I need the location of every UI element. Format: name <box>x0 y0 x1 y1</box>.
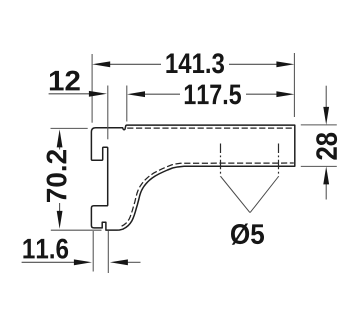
dimension 141.3 label <box>166 53 224 73</box>
dimension 28 label <box>316 133 337 160</box>
dimension 28 tick bottom <box>301 165 337 167</box>
dimension 11.6 label <box>23 239 68 259</box>
dimension 28 line <box>325 86 327 200</box>
bracket outline <box>91 125 294 230</box>
extension line right (x=294.4) <box>293 53 295 117</box>
extension line step (x=126.8) <box>126 86 128 122</box>
dimension 70.2 line <box>59 147 61 212</box>
hole center line 1 <box>220 144 222 177</box>
hole center line 2 <box>278 144 280 177</box>
dimension 11.6 right arrow <box>110 259 128 265</box>
hidden inner line bottom and curve (dashed) <box>122 163 294 226</box>
dimension 70.2 top arrow <box>57 129 63 147</box>
extension line left (x=92) <box>91 54 93 123</box>
diameter label Ø5 <box>231 223 264 244</box>
dimension 11.6 extension line right <box>107 231 109 273</box>
dimension 28 bottom arrow <box>323 166 329 184</box>
dimension 28 top arrow <box>323 107 329 125</box>
dimension 70.2 extension line top <box>51 127 88 129</box>
dimension 117.5 line <box>144 93 278 95</box>
dimension 70.2 extension line bottom <box>51 229 102 231</box>
dimension 11.6 left arrow <box>74 259 92 265</box>
dimension 117.5 left arrow <box>127 91 145 97</box>
dimension 117.5 label <box>185 85 241 105</box>
dimension 141.3 right arrow <box>276 61 294 67</box>
diameter leader V right <box>250 177 278 213</box>
dimension 117.5 right arrow <box>276 91 294 97</box>
extension line web (x=107.8) <box>107 86 109 140</box>
diameter leader V left <box>221 177 250 213</box>
dimension 141.3 left arrow <box>92 61 110 67</box>
dimension 70.2 bottom arrow <box>57 211 63 229</box>
dimension 12 label <box>50 71 80 91</box>
dimension 11.6 leader line <box>22 261 141 263</box>
dimension 70.2 label <box>47 150 67 202</box>
dimension 12 arrow <box>89 91 107 97</box>
dimension 141.3 line <box>109 63 278 65</box>
dimension 12 leader line <box>49 93 90 95</box>
dimension 28 tick top <box>301 124 337 126</box>
hidden inner line top (dashed) <box>127 127 294 129</box>
dimension 11.6 extension line left <box>92 231 94 272</box>
